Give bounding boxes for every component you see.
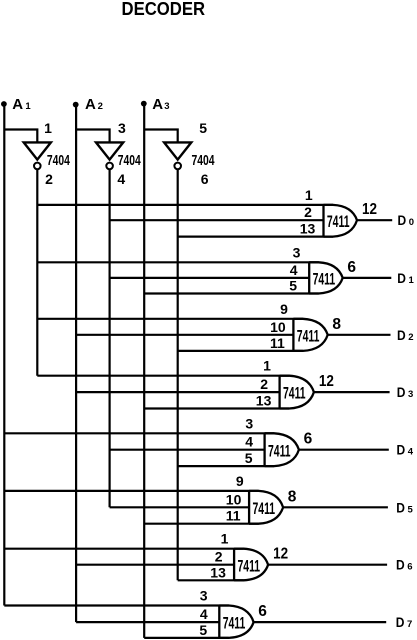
svg-text:9: 9 [236,473,244,489]
svg-text:A: A [152,96,163,113]
svg-text:1: 1 [305,187,313,203]
wire: A1 branch to inverter 1 [4,130,37,144]
svg-text:6: 6 [407,562,412,573]
svg-text:12: 12 [319,373,334,390]
wire: gate 6 middle input from bus [76,564,234,566]
svg-text:10: 10 [226,491,242,507]
wire: gate 5 output to D5 [283,506,388,508]
wire: gate 4 bottom input from bus [178,465,274,467]
wire: gate 1 top input from bus [37,261,318,263]
svg-text:6: 6 [347,259,356,276]
svg-text:3: 3 [164,101,169,112]
svg-text:8: 8 [332,316,341,333]
svg-text:1: 1 [409,275,415,286]
and-gate G4 (7411) body [265,433,299,466]
svg-text:7411: 7411 [297,326,320,345]
svg-text:1: 1 [44,120,52,136]
svg-text:6: 6 [201,171,209,187]
svg-text:2: 2 [408,332,413,343]
svg-text:7404: 7404 [47,153,70,169]
and-gate G0 (7411) body [324,205,358,237]
svg-text:2: 2 [304,204,312,220]
and-gate G1 (7411) body [309,262,343,293]
wire: gate 3 top input from bus [37,375,289,377]
svg-text:11: 11 [226,508,241,524]
wire: A2 branch to inverter 2 [76,130,110,144]
wire: gate 2 output to D2 [328,334,391,336]
svg-text:0: 0 [409,217,414,228]
wire: gate 5 bottom input from bus [144,523,258,525]
wire: gate 4 output to D4 [299,449,389,451]
svg-text:7411: 7411 [253,499,276,518]
svg-text:5: 5 [245,450,253,466]
svg-text:13: 13 [210,564,226,580]
svg-text:1: 1 [263,358,271,374]
wire: gate 5 middle input from bus [110,506,250,508]
svg-text:6: 6 [304,431,313,448]
svg-text:5: 5 [199,120,207,136]
wire: gate 4 middle input from bus [110,449,265,451]
svg-text:3: 3 [408,389,413,400]
inverter U1 bubble [34,163,41,170]
svg-text:D: D [396,557,405,573]
wire: gate 3 middle input from bus [76,391,280,393]
svg-text:7411: 7411 [283,384,306,403]
wire: gate 0 middle input from bus [110,219,324,221]
svg-text:13: 13 [300,221,316,237]
svg-text:A: A [12,96,23,113]
svg-text:D: D [397,442,406,458]
and-gate G6 (7411) body [234,549,268,581]
svg-text:11: 11 [270,335,285,351]
wire: vertical bus A2-bar [108,169,110,507]
and-gate G7 (7411) body [219,606,253,638]
svg-text:D: D [398,212,407,228]
wire: vertical bus A3 [143,104,145,638]
wire: gate 6 output to D6 [268,564,387,566]
node A3 input terminal [141,101,147,107]
wire: vertical bus A2 [75,105,77,623]
svg-text:D: D [397,384,406,400]
svg-text:1: 1 [25,101,31,112]
svg-text:D: D [397,270,406,286]
svg-text:10: 10 [270,319,286,335]
svg-text:DECODER: DECODER [122,0,206,19]
inverter U3 (7404) triangle [164,142,191,159]
svg-text:9: 9 [280,301,288,317]
svg-text:7411: 7411 [313,270,336,289]
svg-text:12: 12 [362,201,377,218]
svg-text:3: 3 [245,415,253,431]
svg-text:3: 3 [118,120,126,136]
svg-text:4: 4 [245,434,253,450]
svg-text:7411: 7411 [223,614,246,633]
wire: gate 3 output to D3 [314,391,390,393]
wire: gate 4 top input from bus [4,432,274,434]
svg-text:7411: 7411 [268,441,291,460]
wire: gate 7 bottom input from bus [144,637,229,639]
wire: gate 2 bottom input from bus [178,350,303,352]
wire: gate 2 middle input from bus [76,334,293,336]
wire: gate 3 bottom input from bus [144,407,289,409]
wire: gate 6 top input from bus [4,548,243,550]
svg-text:7404: 7404 [192,153,215,169]
svg-text:6: 6 [258,603,267,620]
svg-text:D: D [396,499,405,515]
svg-text:7: 7 [407,619,412,630]
inverter U1 (7404) triangle [24,142,51,159]
wire: gate 2 top input from bus [37,318,303,320]
svg-text:3: 3 [293,244,301,260]
wire: gate 5 top input from bus [4,490,258,492]
svg-text:5: 5 [289,278,297,294]
svg-text:2: 2 [98,101,103,112]
svg-text:4: 4 [200,606,208,622]
wire: gate 1 middle input from bus [110,277,310,279]
inverter U2 bubble [106,163,113,170]
svg-text:12: 12 [273,546,288,563]
wire: gate 0 top input from bus [37,204,333,206]
svg-text:D: D [396,614,405,630]
svg-text:D: D [397,327,406,343]
wire: gate 7 middle input from bus [76,621,219,623]
node A1 input terminal [1,101,7,107]
svg-text:5: 5 [199,622,207,638]
and-gate G2 (7411) body [293,319,327,351]
svg-text:2: 2 [260,376,268,392]
svg-text:3: 3 [200,588,208,604]
wire: vertical bus A1 [3,104,5,606]
svg-text:2: 2 [215,549,223,565]
svg-text:4: 4 [117,171,125,187]
wire: gate 0 output to D0 [357,219,392,221]
svg-text:7404: 7404 [118,153,141,169]
svg-text:5: 5 [408,504,414,515]
svg-text:13: 13 [256,393,272,409]
svg-text:7411: 7411 [327,212,350,231]
wire: gate 0 bottom input from bus [178,236,333,238]
inverter U2 (7404) triangle [96,142,123,159]
and-gate G3 (7411) body [280,376,314,409]
and-gate G5 (7411) body [249,491,283,524]
svg-text:7411: 7411 [238,556,261,575]
wire: vertical bus A3-bar [177,169,179,580]
wire: gate 7 output to D7 [254,621,387,623]
inverter U3 bubble [174,163,181,170]
svg-text:1: 1 [221,531,229,547]
wire: vertical bus A1-bar [36,169,38,376]
svg-text:A: A [85,96,96,113]
svg-text:2: 2 [45,171,53,187]
wire: gate 6 bottom input from bus [178,579,244,581]
node A2 input terminal [73,102,79,108]
wire: gate 7 top input from bus [4,604,229,606]
svg-text:4: 4 [408,447,414,458]
svg-text:8: 8 [288,488,297,505]
wire: gate 1 bottom input from bus [144,292,319,294]
wire: A3 branch to inverter 3 [144,130,178,144]
wire: gate 1 output to D1 [343,277,392,279]
svg-text:4: 4 [290,262,298,278]
